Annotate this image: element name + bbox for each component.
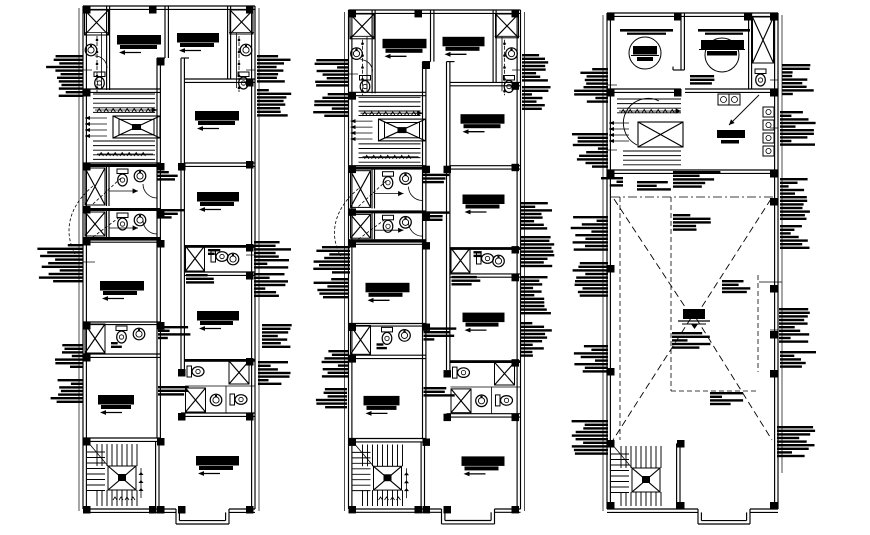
stair S2 enclosure - first floor plan <box>156 438 159 509</box>
elevator shaft roof - roof plan <box>638 122 683 147</box>
annotation block p1-right 6 <box>258 361 291 385</box>
corridor note bath3 - first floor plan <box>186 274 214 284</box>
door arc top-left bath - first floor plan <box>95 56 107 68</box>
annotation block p2-right 4 <box>520 236 554 267</box>
wall below stair - first floor plan <box>83 163 161 166</box>
left shaft wall - typical floor plan <box>372 10 375 93</box>
toilet bath1 - first floor plan <box>117 169 128 186</box>
left shaft wall - first floor plan <box>107 6 110 90</box>
toilet top-left bath - first floor plan <box>94 72 105 89</box>
bath note bath3 - first floor plan <box>208 249 220 255</box>
annotation block p3-left 2 <box>572 133 608 168</box>
roof diagonal SE - roof plan <box>696 318 772 440</box>
bath1 door arrow - typical floor plan <box>375 191 404 196</box>
entrance notch - roof plan <box>698 509 750 524</box>
annotation block p1-right 3 <box>254 241 291 269</box>
annotation block left B <box>37 244 83 282</box>
stair S2 landing - typical floor plan <box>374 466 402 490</box>
shower box bath5a - first floor plan <box>229 361 249 384</box>
bath2 leader diag - first floor plan <box>93 216 121 237</box>
toilet bath3 - first floor plan <box>211 251 228 262</box>
toilet top-left bath - typical floor plan <box>360 76 371 93</box>
outer wall bottom right - roof plan <box>750 509 778 512</box>
shaft x-brace top-left - typical floor plan <box>350 14 374 39</box>
annotation block left C <box>55 344 83 368</box>
room label bedroom1 - first floor plan <box>117 35 161 55</box>
toilet bath3 - typical floor plan <box>477 253 494 264</box>
stair S2 treads - typical floor plan <box>353 445 403 507</box>
wall below bath right mid - typical floor plan <box>450 274 521 277</box>
wall above bath right low - typical floor plan <box>450 360 521 363</box>
annotation leader lines <box>83 70 778 330</box>
corridor note low - typical floor plan <box>424 387 455 397</box>
stair S2 enclosure - typical floor plan <box>421 439 424 510</box>
corridor wall right - typical floor plan <box>447 62 450 371</box>
wall below bedroom2 - typical floor plan <box>450 82 521 85</box>
annotation block p1-right 1 <box>257 55 291 83</box>
shower box bath4 - first floor plan <box>85 324 105 353</box>
door arc bath1 - first floor plan <box>143 184 157 198</box>
wall below bedroom1 / stair top - first floor plan <box>83 89 161 92</box>
room label bedroom3 - typical floor plan <box>461 114 505 134</box>
elevator shaft - first floor plan <box>113 116 160 138</box>
wall below bathrooms left - typical floor plan <box>349 239 427 244</box>
annotation block p2-left 5 <box>322 350 349 378</box>
stair arrow ticks roof - roof plan <box>619 108 681 113</box>
bath2 partition - typical floor plan <box>372 213 375 239</box>
sink bath5b - typical floor plan <box>476 395 488 407</box>
tank room left title - roof plan <box>620 29 673 35</box>
leader curve baths - first floor plan <box>69 186 93 254</box>
bath note bath4 - first floor plan <box>111 342 122 348</box>
toilet bath5a - typical floor plan <box>453 367 470 378</box>
stair S1 treads - first floor plan <box>93 94 155 159</box>
stair S2 enclosure - roof plan <box>677 440 680 509</box>
plumbing riser right strip - first floor plan <box>238 36 241 92</box>
stair S1 treads - typical floor plan <box>359 97 421 162</box>
annotation block p2-left 3 <box>313 246 350 274</box>
annotation block p3-left 5 <box>574 345 608 373</box>
wall columns - typical floor plan <box>349 10 520 513</box>
annotation block left A <box>46 55 83 97</box>
stair S2 ticks - typical floor plan <box>379 468 410 500</box>
bath note bath4 - typical floor plan <box>377 343 387 349</box>
room label bedroom8 - typical floor plan <box>462 456 505 476</box>
wall above lower stair - typical floor plan <box>349 439 427 442</box>
elevator shaft - typical floor plan <box>379 119 426 141</box>
corridor throat - first floor plan <box>157 57 189 59</box>
room label bedroom2 - first floor plan <box>177 33 219 53</box>
toilet bath2 - first floor plan <box>117 213 128 230</box>
shaft shelf line - first floor plan <box>84 32 109 34</box>
stair S2 landing - first floor plan <box>108 466 136 490</box>
stair S2 ticks - first floor plan <box>113 468 144 500</box>
stair side arrows - first floor plan <box>85 116 107 138</box>
corridor wall right - first floor plan <box>181 58 184 369</box>
bath2 leader diag - typical floor plan <box>359 218 387 239</box>
sink bath1 - typical floor plan <box>400 173 412 185</box>
room label bedroom6 - typical floor plan <box>463 313 505 333</box>
sink top-left bath - first floor plan <box>85 44 97 56</box>
plumbing riser right strip - typical floor plan <box>503 40 506 96</box>
toilet roof right - roof plan <box>755 69 766 86</box>
outer wall top - typical floor plan <box>349 10 521 13</box>
wall below bath right low - typical floor plan <box>447 414 521 417</box>
toilet bath5a - first floor plan <box>187 366 204 377</box>
stair S2 treads - roof plan <box>611 446 661 506</box>
shaft shelf line right - first floor plan <box>229 32 254 34</box>
corridor wall left - typical floor plan <box>423 62 426 439</box>
stair S1 arrow ticks - first floor plan <box>95 107 157 156</box>
annotation block p1-right 2 <box>257 89 291 117</box>
wall above bath left low - typical floor plan <box>349 324 427 327</box>
wall between bedroom1 and bedroom2 - first floor plan <box>165 6 168 58</box>
shower box bath3 - first floor plan <box>186 246 205 271</box>
room label bedroom5 left - first floor plan <box>100 281 144 301</box>
bath1 partition - typical floor plan <box>372 169 375 209</box>
stair spiral arc - roof plan <box>623 98 659 145</box>
stair S2 treads - first floor plan <box>87 444 137 506</box>
toilet bath5b - first floor plan <box>230 394 247 405</box>
toilet bath5b - typical floor plan <box>496 395 513 406</box>
roof note center-left - roof plan <box>637 181 671 191</box>
annotation block p3-left 3 <box>571 216 608 251</box>
wall between tank rooms - roof plan <box>673 13 684 70</box>
sink bath3 - first floor plan <box>227 253 239 265</box>
wall below bedroom2 - first floor plan <box>184 79 255 82</box>
annotation block p2-right 5 <box>520 276 551 314</box>
roof dashed horizontal - roof plan <box>671 390 758 392</box>
kitchen leader arrow - roof plan <box>729 95 759 125</box>
bath note bath3 - typical floor plan <box>474 251 482 257</box>
wall between bathrooms row - typical floor plan <box>349 210 427 213</box>
wall below bath left low - first floor plan <box>83 354 161 357</box>
wall columns - first floor plan <box>83 6 254 514</box>
dimension extension line right - roof plan <box>781 15 783 473</box>
annotation block p1-right 4 <box>254 273 288 297</box>
corridor wall left - first floor plan <box>157 58 160 438</box>
tank note right room - roof plan <box>690 75 714 85</box>
wall below bedroom1 / stair top - typical floor plan <box>349 92 427 95</box>
annotation block p2-left 4 <box>314 278 349 298</box>
wall below bathrooms left - first floor plan <box>83 237 161 242</box>
outer wall top - roof plan <box>607 13 778 16</box>
roof note center - roof plan <box>673 214 711 231</box>
stair side arrows - typical floor plan <box>351 119 373 141</box>
sink bath2 - first floor plan <box>134 214 146 226</box>
right shaft wall - typical floor plan <box>493 10 496 82</box>
outer wall top - first floor plan <box>83 6 255 9</box>
roof diagonal NE - roof plan <box>696 199 771 316</box>
shaft shelf line - typical floor plan <box>350 35 375 37</box>
entrance notch - typical floor plan <box>442 509 495 524</box>
bath1 leader diag - first floor plan <box>93 178 121 204</box>
wall columns - roof plan <box>607 13 778 510</box>
plumbing riser left strip - first floor plan <box>96 36 99 92</box>
dimension extension line right - typical floor plan <box>524 12 526 511</box>
kitchen counter squares - roof plan <box>763 107 774 156</box>
water tank left body - roof plan <box>631 46 659 61</box>
bath2 door arrow - typical floor plan <box>375 228 404 233</box>
annotation block p2-left 2 <box>313 93 349 117</box>
stair S1 treads - roof plan <box>617 99 681 165</box>
door arc top-left bath - typical floor plan <box>361 60 373 72</box>
outer wall right - roof plan <box>775 13 778 509</box>
shower box bath4 - typical floor plan <box>351 326 371 355</box>
annotation block p3-right 4 <box>780 225 810 249</box>
stair S2 landing - roof plan <box>632 468 660 492</box>
strip partition right - typical floor plan <box>501 37 503 92</box>
bath5 partition - first floor plan <box>185 386 255 413</box>
annotation block p2-right 3 <box>520 202 552 230</box>
toilet top-right bath - first floor plan <box>238 72 249 89</box>
outer wall bottom right - first floor plan <box>229 509 255 512</box>
room label bedroom3 - first floor plan <box>195 111 239 131</box>
annotation block p2-left 6 <box>316 388 347 408</box>
outer wall bottom left - first floor plan <box>83 509 176 512</box>
bath1 partition - first floor plan <box>107 166 110 206</box>
wall below bath left low - typical floor plan <box>349 355 427 358</box>
roof dashed vertical left - roof plan <box>619 197 621 440</box>
wall above bath left low - first floor plan <box>83 322 161 325</box>
annotation block p2-right 2 <box>522 86 551 110</box>
stair S2 diagonal - roof plan <box>611 443 632 468</box>
outer wall left - roof plan <box>607 13 610 509</box>
sink top-left bath - typical floor plan <box>351 48 363 60</box>
toilet bath2 - typical floor plan <box>383 215 394 232</box>
sink bath3 - typical floor plan <box>493 255 505 267</box>
right shaft wall - roof plan <box>749 13 752 89</box>
bath2 door arrow - first floor plan <box>109 225 138 230</box>
entrance notch - first floor plan <box>176 509 229 524</box>
strip partition left - first floor plan <box>101 33 103 88</box>
wall below bedroom3 - typical floor plan <box>450 166 521 169</box>
annotation block p2-right 1 <box>522 54 548 82</box>
wall below bedroom3 - first floor plan <box>184 163 255 166</box>
door arc bath2 - typical floor plan <box>409 222 423 236</box>
room label bedroom8 - first floor plan <box>196 456 239 476</box>
roof dashed vertical mid - roof plan <box>670 197 672 391</box>
shaft shelf line right - typical floor plan <box>495 35 520 37</box>
outer wall right - typical floor plan <box>517 10 520 509</box>
bath2 partition - first floor plan <box>107 211 110 237</box>
room label bedroom4 - typical floor plan <box>463 195 505 215</box>
shower box bath5b - typical floor plan <box>451 389 471 413</box>
wall above bath right low - first floor plan <box>184 359 255 362</box>
annotation block p3-left 6 <box>572 420 608 455</box>
annotation block p1-right 5 <box>262 324 292 348</box>
sink bath4 - first floor plan <box>133 328 145 340</box>
corridor note low - first floor plan <box>158 386 189 396</box>
annotation block p3-right 2 <box>780 111 816 146</box>
strip partition right - first floor plan <box>236 33 238 88</box>
annotation block p2-right 6 <box>520 322 552 357</box>
roof diagonal SW - roof plan <box>613 318 691 440</box>
dimension extension line left - roof plan <box>602 15 604 511</box>
roof title canaleta - roof plan <box>673 171 720 188</box>
bath5 partition - typical floor plan <box>451 387 521 414</box>
wall below tank room left - roof plan <box>607 89 681 92</box>
tank room right title - roof plan <box>698 29 750 35</box>
stair S2 diagonal - typical floor plan <box>353 442 374 467</box>
wall below bath right low - first floor plan <box>181 413 255 416</box>
corridor note mid - typical floor plan <box>424 327 457 340</box>
outer wall left - first floor plan <box>83 6 86 509</box>
kitchen sink boxes - roof plan <box>718 94 740 105</box>
wall across below stair - roof plan <box>607 170 778 173</box>
outer wall bottom right - typical floor plan <box>495 509 521 512</box>
roof diagonal NW - roof plan <box>614 199 691 316</box>
annotation block p3-right 6 <box>780 351 816 368</box>
door arc bath2 - first floor plan <box>143 220 157 234</box>
sink bath4 - typical floor plan <box>399 330 411 342</box>
corridor note upper - typical floor plan <box>423 174 450 184</box>
roof note left - roof plan <box>601 177 623 187</box>
corridor note bath3 - typical floor plan <box>452 276 481 286</box>
roof note drain - roof plan <box>672 332 710 349</box>
shower box bath1 - first floor plan <box>85 168 105 205</box>
wall between bathrooms row - first floor plan <box>83 208 161 211</box>
strip partition left - typical floor plan <box>366 37 368 92</box>
water tank right circle - roof plan <box>705 38 739 72</box>
outer wall right - first floor plan <box>252 6 255 509</box>
shower box bath3 - typical floor plan <box>451 248 470 273</box>
water tank left circle - roof plan <box>629 37 661 69</box>
toilet top-right bath - typical floor plan <box>504 76 515 93</box>
dimension extension line left - first floor plan <box>78 8 80 511</box>
sink bath2 - typical floor plan <box>400 217 412 229</box>
wall above lower stair - first floor plan <box>83 438 161 441</box>
stair S1 arrow ticks - typical floor plan <box>361 111 423 159</box>
corridor throat - typical floor plan <box>423 61 455 63</box>
room label bedroom7 left - typical floor plan <box>364 396 400 416</box>
shower box bath5a - typical floor plan <box>495 362 515 385</box>
shaft x-brace top-right - typical floor plan <box>496 14 519 38</box>
bath1 leader diag - typical floor plan <box>359 181 387 207</box>
kitchen label - roof plan <box>717 130 745 144</box>
stair S2 diagonal - first floor plan <box>87 441 108 466</box>
outer wall bottom left - roof plan <box>607 509 698 512</box>
wall below tank room right kitchen top - roof plan <box>685 89 778 92</box>
shaft x-brace roof - roof plan <box>753 17 774 63</box>
toilet bath1 - typical floor plan <box>383 172 394 189</box>
annotation block p3-right 3 <box>780 178 810 220</box>
room label bedroom4 - first floor plan <box>197 192 239 212</box>
roof dashed vertical right - roof plan <box>757 275 759 372</box>
annotation block p3-right 5 <box>779 308 810 343</box>
toilet bath4 - typical floor plan <box>382 327 393 344</box>
corridor note row2 - first floor plan <box>157 209 184 219</box>
bath1 door arrow - first floor plan <box>109 188 138 193</box>
shower box bath1 - typical floor plan <box>351 171 371 208</box>
room label bedroom1 - typical floor plan <box>383 39 427 59</box>
shower box bath2 - first floor plan <box>85 212 105 236</box>
wall above bath right mid - first floor plan <box>184 245 255 248</box>
leader curve baths - typical floor plan <box>335 189 359 256</box>
roof ridge dashdot - roof plan <box>611 196 774 198</box>
annotation block p3-right 7 <box>777 426 815 457</box>
plumbing riser left strip - typical floor plan <box>361 40 364 96</box>
roof note SE - roof plan <box>710 392 743 405</box>
sink top-right bath - typical floor plan <box>506 48 518 60</box>
roof note E - roof plan <box>722 280 782 293</box>
shower box bath5b - first floor plan <box>186 388 206 412</box>
wall between bedroom1 and bedroom2 - typical floor plan <box>431 10 434 62</box>
wall below bath right mid - first floor plan <box>184 272 255 275</box>
shower box bath2 - typical floor plan <box>351 214 371 238</box>
wall above bath right mid - typical floor plan <box>450 247 521 250</box>
room label bedroom5 left - typical floor plan <box>366 283 410 303</box>
annotation block p2-left 1 <box>315 59 349 87</box>
toilet bath4 - first floor plan <box>116 326 127 343</box>
room label bedroom2 - typical floor plan <box>443 37 485 57</box>
corridor note mid - first floor plan <box>158 326 190 339</box>
annotation block p3-left 1 <box>574 68 608 103</box>
sink top-right bath - first floor plan <box>240 44 252 56</box>
room label bedroom7 left - first floor plan <box>98 395 134 415</box>
water tank right body - roof plan <box>699 40 745 56</box>
room label bedroom6 - first floor plan <box>197 311 239 331</box>
roof drain - roof plan <box>678 309 710 329</box>
annotation block p3-right 1 <box>782 64 814 95</box>
sink bath1 - first floor plan <box>134 170 146 182</box>
dimension extension line left - typical floor plan <box>344 12 346 511</box>
annotation block p3-left 4 <box>573 262 608 297</box>
sink bath5b - first floor plan <box>210 394 222 406</box>
door arc bath1 - typical floor plan <box>409 187 423 201</box>
outer wall bottom left - typical floor plan <box>349 509 442 512</box>
outer wall left - typical floor plan <box>349 10 352 509</box>
right shaft wall - first floor plan <box>228 6 231 79</box>
corridor note row2 - typical floor plan <box>423 211 450 221</box>
stair side arrows roof - roof plan <box>609 121 629 143</box>
corridor note upper - first floor plan <box>157 171 178 181</box>
annotation block left D <box>51 379 83 403</box>
dimension extension line right - first floor plan <box>258 8 260 511</box>
wall below stair - typical floor plan <box>349 166 427 169</box>
shaft x-brace top-right - first floor plan <box>230 10 253 34</box>
shaft x-brace top-left - first floor plan <box>85 10 109 35</box>
